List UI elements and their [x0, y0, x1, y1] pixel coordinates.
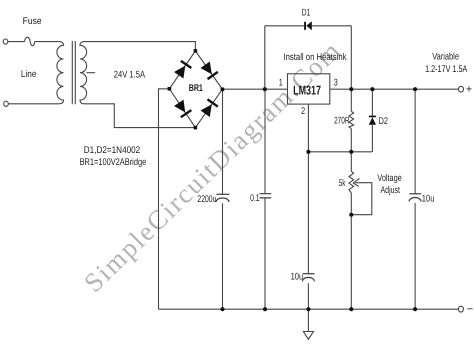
wire bridge left node stub and vertical to bottom rail	[159, 89, 170, 309]
junction dot D2 top at rail	[370, 87, 374, 91]
capacitor C4 10u output top lead	[414, 89, 416, 194]
junction dot pot wiper tie	[349, 213, 353, 217]
bridge diamond edges	[169, 51, 222, 128]
transformer secondary center tap stub	[87, 72, 96, 74]
wire ADJ horizontal	[308, 151, 372, 153]
diode D1 (cathode left)	[304, 21, 312, 30]
svg-text:10u: 10u	[422, 194, 435, 205]
svg-text:2: 2	[301, 106, 305, 117]
svg-text:24V 1.5A: 24V 1.5A	[114, 70, 146, 81]
capacitor C4 10u out plates	[410, 193, 422, 195]
svg-text:BR1: BR1	[189, 83, 204, 94]
svg-text:2200u: 2200u	[197, 194, 216, 205]
wire fuse to transformer primary	[35, 41, 59, 43]
svg-text:Adjust: Adjust	[381, 185, 401, 196]
svg-text:Fuse: Fuse	[23, 16, 42, 27]
wire D1 horizontal left segment	[265, 25, 304, 27]
wire LM317 pin 3 to output terminal	[330, 88, 459, 90]
wire terminal to fuse	[8, 41, 25, 43]
bridge diode top-left (anode left node, cathode top node)	[174, 60, 192, 79]
bridge diode bottom-left (anode left node, cathode bottom node)	[174, 99, 192, 118]
resistor R1 270R zigzag	[349, 111, 354, 128]
svg-text:D1: D1	[302, 8, 311, 19]
fuse F1	[25, 37, 35, 45]
svg-text:Voltage: Voltage	[377, 173, 401, 184]
capacitor C4 10u output bottom lead	[414, 203, 416, 309]
diode D2 (cathode top)	[369, 116, 376, 125]
wire bottom terminal to transformer primary	[8, 103, 59, 105]
resistor R1 270R leads	[350, 89, 352, 152]
output terminal plus	[459, 86, 464, 92]
output terminal minus	[458, 306, 463, 312]
capacitor C1 2200u top lead	[222, 89, 224, 194]
transformer T1 primary winding	[57, 42, 64, 104]
junction dot bottom rail out cap	[413, 307, 417, 311]
capacitor C2 0.1 top lead	[264, 89, 266, 194]
junction dot bottom rail pot	[349, 307, 353, 311]
terminal bottom-left	[4, 101, 9, 106]
svg-text:+: +	[466, 84, 472, 96]
potentiometer R2 5k zigzag	[349, 171, 354, 193]
junction dot out cap at rail	[413, 87, 417, 91]
junction dot bottom rail C1	[220, 307, 224, 311]
bridge diode top-right (anode top node, cathode right node)	[200, 61, 219, 80]
svg-text:−: −	[467, 304, 473, 316]
junction dot D1 left at rail	[263, 87, 267, 91]
potentiometer wiper arm and loop	[351, 183, 372, 215]
svg-text:0.1: 0.1	[250, 193, 260, 204]
junction dot bottom rail pin2/ground	[306, 307, 310, 311]
potentiometer wiper arrowhead	[353, 178, 360, 186]
terminal top-left	[3, 39, 8, 44]
svg-text:LM317: LM317	[293, 82, 321, 97]
LM317 box	[288, 74, 330, 104]
potentiometer bottom lead	[350, 193, 352, 309]
capacitor C3 10u adj plates	[303, 273, 315, 275]
junction dot bridge left node	[168, 87, 172, 91]
svg-text:D2: D2	[379, 116, 388, 127]
svg-text:5k: 5k	[339, 178, 346, 189]
svg-text:Variable: Variable	[432, 51, 459, 62]
junction dot bridge right node	[221, 88, 225, 92]
svg-text:BR1=100V2ABridge: BR1=100V2ABridge	[80, 157, 147, 168]
watermark SimpleCircuitDiagram.Com	[78, 35, 347, 299]
svg-text:D1,D2=1N4002: D1,D2=1N4002	[84, 145, 140, 156]
diode D2 top lead	[371, 89, 373, 116]
capacitor C1 2200u bottom lead	[222, 203, 224, 309]
junction dot D1 right at rail	[349, 87, 353, 91]
junction dot ADJ at 270R	[349, 150, 353, 154]
wire D1 right vertical to output rail	[350, 26, 352, 89]
wire secondary bottom to bridge bottom node	[85, 104, 196, 128]
junction dot bottom rail C2	[263, 307, 267, 311]
bridge diode bottom-right (anode bottom node, cathode right node)	[200, 98, 219, 117]
transformer T1 secondary winding	[80, 42, 87, 104]
wire secondary top to bridge top node	[85, 42, 196, 51]
svg-text:1: 1	[279, 78, 283, 89]
wire D1 left vertical	[264, 26, 266, 89]
svg-text:Line: Line	[21, 69, 37, 80]
ground symbol	[303, 332, 313, 340]
capacitor C2 0.1 bottom lead	[264, 198, 266, 309]
wire LM317 pin 2 vertical	[307, 104, 309, 274]
capacitor C1 2200u plates	[216, 193, 229, 195]
wire 270R junction to pot top	[350, 152, 352, 172]
wire pin2 cap bottom to ground rail	[307, 283, 309, 309]
svg-text:1.2-17V 1.5A: 1.2-17V 1.5A	[425, 64, 468, 75]
transformer core	[72, 41, 75, 104]
junction dot ADJ at pin2	[306, 150, 310, 154]
wire bridge right node to LM317 pin 1	[222, 88, 287, 90]
ground stub	[307, 309, 309, 331]
svg-text:Install on Heatsink: Install on Heatsink	[284, 52, 347, 63]
bottom rail wire	[159, 308, 459, 310]
junction dot bridge bottom node	[194, 126, 198, 130]
junction dot bridge top node	[194, 49, 198, 53]
wire D1 horizontal right segment	[312, 25, 352, 27]
diode D2 bottom lead	[371, 125, 373, 152]
svg-text:10u: 10u	[291, 272, 304, 283]
svg-text:270R: 270R	[334, 116, 349, 127]
svg-text:3: 3	[334, 78, 338, 89]
capacitor C2 0.1 plates	[260, 194, 272, 198]
